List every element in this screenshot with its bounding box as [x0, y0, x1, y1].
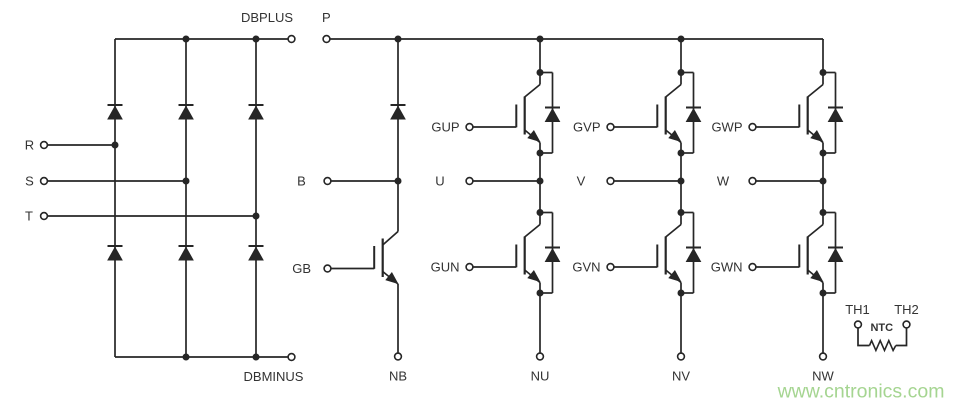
svg-text:TH1: TH1 — [845, 302, 870, 317]
node V output — [678, 178, 685, 185]
diode DB (brake) — [391, 105, 406, 119]
svg-text:DBPLUS: DBPLUS — [241, 10, 293, 25]
svg-text:GWP: GWP — [711, 120, 742, 135]
svg-text:GWN: GWN — [711, 260, 743, 275]
svg-text:P: P — [322, 10, 331, 25]
wire U mid — [539, 153, 541, 213]
IGBT QVP (upper) — [657, 73, 681, 143]
diode D2 (upper arm) — [179, 105, 194, 119]
label GUP — [431, 120, 459, 135]
wire W emitter to NW — [822, 293, 824, 353]
wire TH1 leg — [858, 328, 870, 346]
node U output — [537, 178, 544, 185]
IGBT QWN (lower) — [799, 213, 823, 283]
terminal TH2 — [903, 321, 910, 328]
junction P rail / leg U — [537, 36, 544, 43]
wire leg V from P rail — [680, 39, 682, 73]
terminal S — [41, 178, 48, 185]
wire V top-cell emitter — [680, 143, 682, 154]
terminal NB — [395, 353, 402, 360]
diode D4 (lower arm) — [108, 246, 123, 260]
wire P rail — [330, 38, 823, 40]
label TH2 — [894, 302, 919, 317]
svg-text:www.cntronics.com: www.cntronics.com — [777, 381, 945, 403]
svg-text:U: U — [435, 174, 444, 189]
node V top-cell emitter — [678, 150, 685, 157]
wire U top diode tap lower — [540, 152, 553, 154]
wire DC- rail (rectifier bottom) — [115, 356, 288, 358]
node U top-cell emitter — [537, 150, 544, 157]
wire rectifier column 2 — [185, 39, 187, 357]
terminal DBMINUS — [288, 354, 295, 361]
svg-text:T: T — [25, 209, 33, 224]
terminal GWP — [749, 124, 756, 131]
svg-text:GB: GB — [292, 261, 311, 276]
label NV — [672, 369, 690, 384]
terminal R — [41, 142, 48, 149]
wire rectifier column 1 — [114, 39, 116, 357]
node V top-cell collector — [678, 69, 685, 76]
wire T input — [47, 215, 256, 217]
terminal NW — [820, 353, 827, 360]
diode DVP (freewheel upper) — [686, 108, 701, 122]
diode D6 (lower arm) — [249, 246, 264, 260]
wire W top diode tap lower — [823, 152, 836, 154]
label GVN — [572, 260, 600, 275]
wire W output — [756, 180, 823, 182]
junction bottom rail / column 3 — [253, 354, 260, 361]
label DBMINUS — [244, 369, 304, 384]
wire GVP gate — [614, 126, 657, 128]
label R — [25, 138, 34, 153]
wire U bottom diode tap upper — [540, 212, 553, 214]
node V bottom-cell collector — [678, 209, 685, 216]
junction top rail / column 3 — [253, 36, 260, 43]
wire GB emitter to NB — [397, 284, 399, 353]
node U top-cell collector — [537, 69, 544, 76]
wire V bottom-cell emitter — [680, 283, 682, 294]
diode DVN (freewheel lower) — [686, 248, 701, 262]
wire GB collector — [397, 181, 399, 232]
svg-text:B: B — [297, 174, 306, 189]
node W bottom-cell collector — [820, 209, 827, 216]
diode DUP (freewheel upper) — [545, 108, 560, 122]
wire U top diode tap upper — [540, 72, 553, 74]
svg-text:NTC: NTC — [870, 322, 893, 334]
wire B — [331, 180, 398, 182]
svg-text:GVP: GVP — [573, 120, 600, 135]
wire GUN gate — [473, 266, 516, 268]
corner P rail / leg W — [822, 39, 824, 40]
svg-text:GUN: GUN — [431, 260, 460, 275]
wire V top diode tap lower — [681, 152, 694, 154]
node B — [395, 178, 402, 185]
wire U emitter to NU — [539, 293, 541, 353]
wire W mid — [822, 153, 824, 213]
label P — [322, 10, 331, 25]
wire W top-cell emitter — [822, 143, 824, 154]
terminal U — [466, 178, 473, 185]
wire TH2 leg — [896, 328, 907, 346]
watermark www.cntronics.com — [777, 381, 945, 403]
label DBPLUS — [241, 10, 293, 25]
wire W bottom-cell emitter — [822, 283, 824, 294]
junction P rail / leg V — [678, 36, 685, 43]
label B — [297, 174, 306, 189]
wire W top diode branch — [835, 73, 837, 154]
node S / column 2 — [183, 178, 190, 185]
svg-text:GUP: GUP — [431, 120, 459, 135]
label T — [25, 209, 33, 224]
svg-text:R: R — [25, 138, 34, 153]
junction bottom rail / column 2 — [183, 354, 190, 361]
wire V emitter to NV — [680, 293, 682, 353]
wire W bottom diode branch — [835, 213, 837, 294]
IGBT QWP (upper) — [799, 73, 823, 143]
terminal T — [41, 213, 48, 220]
diode D1 (upper arm) — [108, 105, 123, 119]
junction top rail / column 2 — [183, 36, 190, 43]
wire V bottom diode tap lower — [681, 292, 694, 294]
terminal GUP — [466, 124, 473, 131]
wire U bottom-cell emitter — [539, 283, 541, 294]
wire W bottom diode tap lower — [823, 292, 836, 294]
label GWP — [711, 120, 742, 135]
node W top-cell emitter — [820, 150, 827, 157]
wire S input — [47, 180, 186, 182]
wire V output — [614, 180, 681, 182]
svg-text:NV: NV — [672, 369, 690, 384]
wire V bottom diode branch — [693, 213, 695, 294]
wire W top diode tap upper — [823, 72, 836, 74]
terminal P — [323, 36, 330, 43]
terminal GUN — [466, 264, 473, 271]
svg-text:NU: NU — [531, 369, 550, 384]
diode DWN (freewheel lower) — [828, 248, 843, 262]
wire V mid — [680, 153, 682, 213]
svg-text:W: W — [717, 174, 730, 189]
wire GWP gate — [756, 126, 799, 128]
wire rectifier column 3 — [255, 39, 257, 357]
label NB — [389, 369, 407, 384]
wire U bottom diode tap lower — [540, 292, 553, 294]
terminal NV — [678, 353, 685, 360]
node W bottom-cell emitter — [820, 290, 827, 297]
wire V top diode tap upper — [681, 72, 694, 74]
wire leg U from P rail — [539, 39, 541, 73]
terminal DBPLUS — [288, 36, 295, 43]
terminal W — [749, 178, 756, 185]
label W — [717, 174, 730, 189]
label U — [435, 174, 444, 189]
wire DC+ rail (rectifier top) — [115, 38, 288, 40]
node W top-cell collector — [820, 69, 827, 76]
wire V top diode branch — [693, 73, 695, 154]
svg-text:GVN: GVN — [572, 260, 600, 275]
wire brake branch upper — [397, 39, 399, 181]
svg-text:TH2: TH2 — [894, 302, 919, 317]
wire GWN gate — [756, 266, 799, 268]
label GVP — [573, 120, 600, 135]
wire GUP gate — [473, 126, 516, 128]
wire leg W from P rail — [822, 39, 824, 73]
label NW — [812, 369, 834, 384]
IGBT QUN (lower) — [516, 213, 540, 283]
wire R input — [47, 144, 115, 146]
diode D5 (lower arm) — [179, 246, 194, 260]
node U bottom-cell emitter — [537, 290, 544, 297]
wire U top-cell emitter — [539, 143, 541, 154]
junction P rail / brake branch — [395, 36, 402, 43]
svg-text:NB: NB — [389, 369, 407, 384]
node T / column 3 — [253, 213, 260, 220]
terminal NU — [537, 353, 544, 360]
diode DWP (freewheel upper) — [828, 108, 843, 122]
terminal GB — [324, 265, 331, 272]
wire W bottom diode tap upper — [823, 212, 836, 214]
IGBT QB (brake chopper) — [374, 232, 398, 285]
wire U top diode branch — [552, 73, 554, 154]
IGBT QVN (lower) — [657, 213, 681, 283]
label S — [25, 174, 34, 189]
node W output — [820, 178, 827, 185]
wire U bottom diode branch — [552, 213, 554, 294]
terminal GWN — [749, 264, 756, 271]
label GUN — [431, 260, 460, 275]
terminal TH1 — [855, 321, 862, 328]
wire GB gate — [331, 268, 374, 270]
terminal GVP — [607, 124, 614, 131]
node R / column 1 — [112, 142, 119, 149]
node V bottom-cell emitter — [678, 290, 685, 297]
resistor NTC (thermistor zigzag) — [870, 341, 896, 351]
label GB — [292, 261, 311, 276]
IGBT QUP (upper) — [516, 73, 540, 143]
label NU — [531, 369, 550, 384]
label NTC — [870, 322, 893, 334]
terminal GVN — [607, 264, 614, 271]
svg-text:S: S — [25, 174, 34, 189]
label V — [577, 174, 586, 189]
wire V bottom diode tap upper — [681, 212, 694, 214]
label TH1 — [845, 302, 870, 317]
label GWN — [711, 260, 743, 275]
diode D3 (upper arm) — [249, 105, 264, 119]
terminal V — [607, 178, 614, 185]
diode DUN (freewheel lower) — [545, 248, 560, 262]
terminal B — [324, 178, 331, 185]
svg-text:V: V — [577, 174, 586, 189]
wire U output — [473, 180, 540, 182]
node U bottom-cell collector — [537, 209, 544, 216]
svg-text:DBMINUS: DBMINUS — [244, 369, 304, 384]
wire GVN gate — [614, 266, 657, 268]
